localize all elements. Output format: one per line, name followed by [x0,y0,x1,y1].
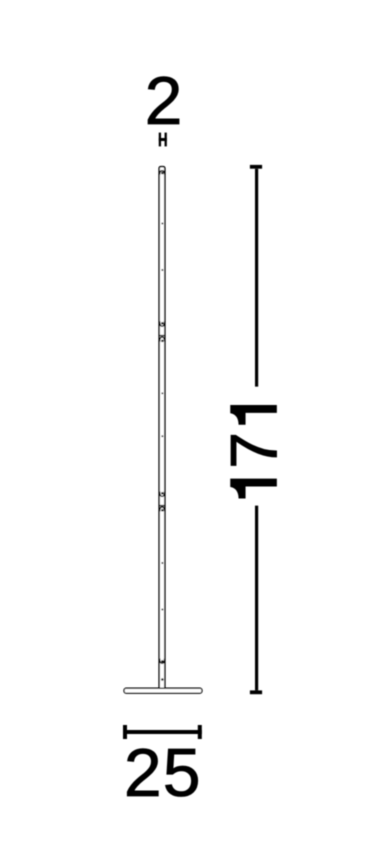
pole-width dimension marker (H tick) [159,133,167,147]
joint 2: segment-3 top cap (dome) [160,507,165,512]
joint 2: segment-2 bottom cap (cup) [160,492,165,497]
joint 3: segment-3 bottom cap (cup) above base connector [160,659,165,664]
height dimension line (171) [250,167,262,693]
pole outline (continuous outer tube walls, rounded top) [159,167,165,689]
base-width dimension line (25) [123,725,202,739]
joint 1: segment-2 top cap (dome) [160,337,165,342]
joint 1: segment-1 bottom cap (cup) [160,321,165,326]
rivet dots on pole [161,172,164,681]
svg-text:25: 25 [124,735,202,811]
joint 2: divider line [159,505,165,507]
joint 1: divider line [159,335,165,337]
dimension label "171": digit "1" (bottom, custom glyph) [231,479,277,498]
base plate [124,688,202,693]
pole top inner cap (dome) [160,171,165,175]
svg-text:2: 2 [145,63,183,139]
dimension label "171" (height, rotated): digit "1" (top, custom glyph) [231,405,277,424]
svg-text:7: 7 [217,432,291,469]
